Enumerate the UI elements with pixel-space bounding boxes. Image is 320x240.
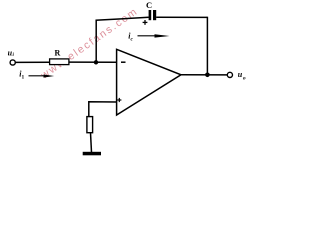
capacitor C (149, 10, 157, 20)
current arrow ic (138, 34, 170, 37)
wire feedback down right (206, 17, 208, 75)
current arrow i1 (29, 75, 55, 78)
wire resistor to op-amp (69, 61, 117, 63)
polarity plus (143, 20, 148, 25)
input terminal u_i (10, 60, 15, 65)
wire feedback top-left segment (96, 17, 149, 20)
node A junction dot (94, 60, 98, 64)
plus sign (117, 98, 121, 102)
wire output (181, 74, 227, 76)
svg-text:R: R (55, 48, 61, 57)
ground (83, 152, 101, 156)
node B junction dot (205, 73, 210, 78)
minus sign (121, 61, 126, 63)
resistor R2 (87, 117, 93, 133)
wire non-inverting input (89, 102, 117, 117)
wire input to resistor (16, 61, 50, 63)
svg-text:C: C (146, 0, 152, 10)
output terminal u_o (227, 72, 232, 77)
resistor R (50, 59, 69, 65)
wire feedback top-right segment (156, 16, 207, 18)
wire resistor to ground (91, 133, 92, 153)
op-amp U1 (117, 49, 181, 115)
wire feedback up (95, 20, 97, 63)
